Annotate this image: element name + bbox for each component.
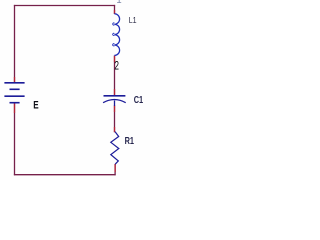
svg-text:L1: L1 (129, 15, 137, 25)
red lead stub above battery (14, 77, 16, 82)
wire right between resistor and bottom corner (114, 164, 116, 175)
svg-text:R1: R1 (125, 136, 135, 147)
battery E plate 1 long (4, 82, 24, 84)
battery E plate 4 short (10, 102, 20, 104)
capacitor C1 straight plate (104, 95, 126, 97)
wire right between inductor and capacitor (114, 56, 116, 96)
svg-text:1: 1 (116, 0, 121, 6)
capacitor C1 curved plate (103, 100, 126, 103)
red lead stub above resistor (114, 127, 116, 132)
red lead stub below capacitor (114, 106, 116, 113)
resistor R1 zigzag (111, 132, 119, 165)
wire right between top corner and inductor (114, 5, 116, 14)
red lead stub below inductor (114, 56, 116, 63)
wire left lower from battery to bottom corner (14, 103, 16, 176)
red lead stub below battery (14, 103, 16, 113)
inductor L1 left curl 2 (113, 33, 115, 35)
red lead stub above inductor (114, 10, 116, 14)
wire top from battery node to inductor node (14, 5, 115, 7)
wire bottom from battery to resistor (14, 174, 116, 176)
red lead stub above capacitor (114, 89, 116, 95)
svg-text:2: 2 (114, 60, 119, 72)
wire right between capacitor and resistor (114, 106, 116, 133)
red lead stub below resistor (114, 164, 116, 172)
battery E plate 2 short (10, 88, 20, 90)
inductor L1 left curl 3 (113, 44, 115, 46)
wire left upper from top corner to battery (14, 5, 16, 82)
battery E plate 3 long (4, 95, 24, 97)
capacitor C1 stem (114, 100, 116, 106)
svg-text:C1: C1 (134, 95, 144, 106)
svg-text:E: E (33, 100, 38, 112)
inductor L1 left curl 1 (113, 23, 115, 25)
inductor L1 coil (114, 14, 119, 56)
